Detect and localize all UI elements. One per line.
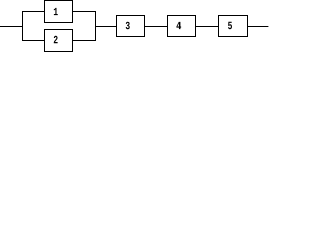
label 2 (54, 36, 58, 43)
label 1 (54, 8, 58, 15)
wire output right (247, 26, 268, 28)
wire split vertical (22, 11, 24, 41)
box 1 (45, 1, 73, 23)
wire rejoin vertical (95, 11, 97, 41)
box 5 (219, 16, 248, 37)
label 4 (176, 22, 181, 29)
wire stub to box 2 left (22, 40, 45, 42)
wire input left (0, 26, 23, 28)
wire box 4 to box 5 (195, 26, 219, 28)
box 3 (117, 16, 145, 37)
background (0, 0, 270, 52)
wire stub from box 1 right (72, 11, 96, 13)
box 4 (168, 16, 196, 37)
wire stub from box 2 right (72, 40, 96, 42)
wire box 3 to box 4 (144, 26, 168, 28)
box 2 (45, 30, 73, 52)
label 5 (228, 22, 232, 29)
wire stub to box 1 left (22, 11, 45, 13)
label 3 (126, 22, 130, 30)
wire rejoin to box 3 (95, 26, 117, 28)
